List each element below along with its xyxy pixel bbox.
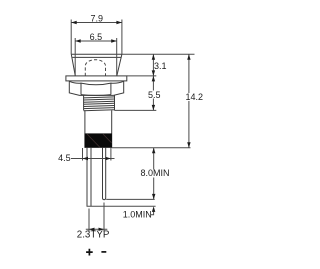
svg-text:14.2: 14.2 [186,92,204,102]
svg-text:7.9: 7.9 [90,13,103,23]
svg-text:3.1: 3.1 [154,61,167,71]
svg-text:6.5: 6.5 [90,32,103,42]
svg-text:5.5: 5.5 [148,90,161,100]
svg-text:4.5: 4.5 [58,153,71,163]
svg-text:1.0MIN: 1.0MIN [123,210,152,220]
svg-text:2.3TYP: 2.3TYP [77,229,110,240]
svg-text:8.0MIN: 8.0MIN [140,168,169,178]
